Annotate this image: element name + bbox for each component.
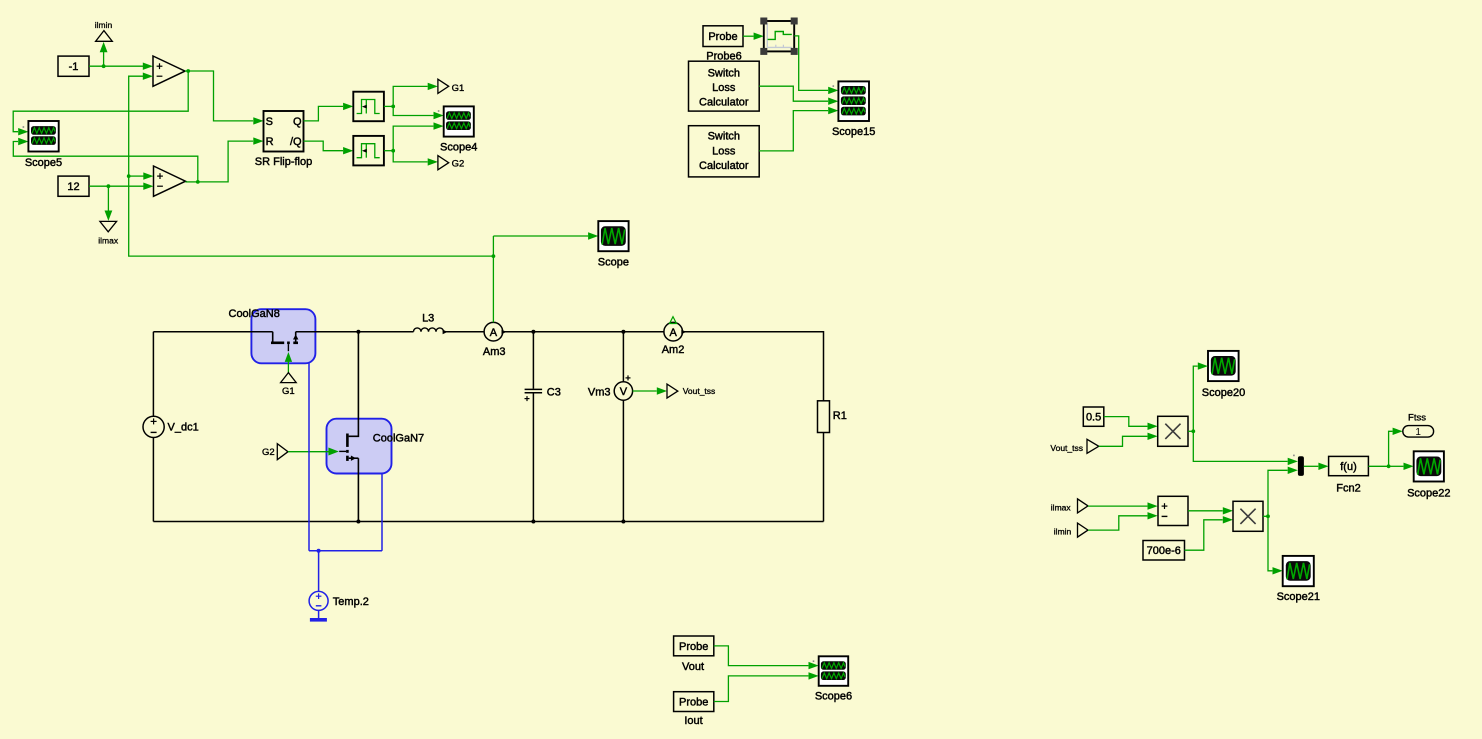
ammeter Am2 (662, 317, 687, 356)
node bottom rail junction (356, 520, 360, 524)
wire mult2 to mux input 2 (1268, 467, 1298, 517)
wire R1 to bottom rail (823, 433, 825, 522)
wire thermal CoolGaN7 (381, 474, 383, 551)
svg-text:Scope: Scope (598, 257, 629, 269)
wire -1 to comparator plus (89, 62, 153, 69)
wire U1 output to Scope5 input 1 (13, 71, 188, 135)
wire delay2 to Scope4 input 2 (393, 122, 444, 150)
svg-text:Scope15: Scope15 (832, 126, 875, 138)
svg-text:C3: C3 (547, 386, 561, 398)
wire Vout_tss to mult1 input 2 (1099, 433, 1158, 447)
svg-text:A: A (670, 327, 678, 339)
scope Scope15 (832, 81, 875, 137)
wire Am3 measurement up (492, 236, 496, 322)
wire sum to mult2 input 1 (1188, 507, 1233, 514)
svg-text:R1: R1 (833, 410, 847, 422)
scope Scope5 (23, 121, 63, 169)
tag ilmin triangle (96, 31, 113, 42)
node C3 top (531, 330, 535, 334)
tag Vout_tss from (1050, 439, 1098, 453)
svg-text:Switch: Switch (708, 67, 740, 79)
svg-text:Scope6: Scope6 (815, 691, 852, 703)
svg-text:Loss: Loss (712, 82, 736, 94)
svg-text:S: S (266, 116, 273, 128)
sum block (1158, 496, 1188, 525)
wire delay2 to G2 tag (393, 151, 438, 166)
thermal ground (310, 610, 327, 621)
svg-text:Vm3: Vm3 (588, 386, 611, 398)
wire Fcn2 to Ftss outport (1389, 428, 1403, 467)
capacitor C3 (525, 332, 561, 522)
wire to Scope (493, 232, 598, 239)
wire top rail left (153, 331, 272, 333)
wire thermal to Temp.2 (318, 551, 320, 592)
turn-on delay 2 (353, 136, 384, 166)
tag G1 under CoolGaN8 (281, 373, 297, 397)
probe Probe6 (703, 26, 743, 63)
wire 700e-6 to mult2 input 2 (1185, 516, 1234, 550)
svg-text:ilmin: ilmin (1054, 526, 1072, 536)
scope Scope22 (1407, 451, 1450, 499)
transistor Q2 in CoolGaN7 (339, 332, 358, 522)
wire mult1 to mux input 1 (1193, 431, 1298, 465)
wire left rail (152, 332, 154, 417)
voltage source V_dc1 (143, 416, 199, 437)
wire U1 output to SR S input (188, 71, 263, 125)
svg-text:G1: G1 (282, 386, 295, 397)
scope Scope6 (813, 656, 852, 702)
wire rail C3 to Vm3 node (533, 331, 623, 333)
node Vm3 bottom (621, 520, 625, 524)
wire Vout to Scope6 input 1 (714, 646, 819, 669)
voltmeter Vm3 (588, 332, 633, 522)
svg-text:L3: L3 (422, 312, 434, 324)
switch loss calculator 1 (689, 61, 760, 111)
switch loss calculator 2 (689, 126, 760, 177)
svg-text:ilmax: ilmax (98, 235, 119, 245)
subsystem CoolGaN7 body (327, 419, 425, 474)
tag G2 (438, 156, 464, 170)
svg-text:700e-6: 700e-6 (1147, 545, 1181, 557)
svg-text:Calculator: Calculator (699, 97, 749, 109)
node thermal junction (317, 549, 321, 553)
constant 700e-6 (1143, 541, 1185, 561)
svg-text:Vout: Vout (682, 661, 704, 673)
wire scope block to Scope15 input 1 (794, 36, 838, 94)
wire mult1 to Scope20 (1193, 362, 1208, 431)
svg-text:Q: Q (293, 116, 302, 128)
inductor L3 (414, 312, 448, 334)
probe Iout (674, 692, 714, 727)
wire Probe6 to scope block (743, 33, 764, 40)
SR flip-flop (255, 111, 312, 168)
svg-text:Scope4: Scope4 (440, 142, 477, 154)
node mult2 output (1263, 514, 1270, 518)
svg-text:R: R (266, 136, 274, 148)
svg-text:CoolGaN8: CoolGaN8 (229, 308, 280, 320)
tag G1 (438, 79, 464, 94)
multiplexer (1293, 455, 1304, 476)
svg-text:Calculator: Calculator (699, 160, 749, 172)
tag ilmax triangle (100, 221, 117, 231)
scope Scope20 (1202, 351, 1245, 399)
scope Scope21 (1277, 556, 1320, 603)
svg-text:Scope20: Scope20 (1202, 387, 1245, 399)
outport Ftss (1403, 413, 1434, 438)
svg-text:Iout: Iout (684, 715, 702, 727)
node top rail junction (356, 330, 360, 334)
svg-text:Probe: Probe (708, 31, 737, 43)
wire inductor to Am3 (444, 331, 485, 333)
wire ilmin to sum input 2 (1088, 512, 1158, 530)
svg-text:A: A (490, 327, 498, 339)
subsystem CoolGaN8 body (229, 308, 316, 363)
tag ilmin from (1054, 523, 1088, 537)
svg-text:Vout_tss: Vout_tss (683, 386, 716, 396)
wire to ilmax tag (105, 186, 113, 221)
svg-text:Scope5: Scope5 (25, 157, 62, 169)
wire left rail lower (152, 438, 154, 522)
wire U2 output to SR R input (198, 137, 264, 181)
constant -1 (58, 56, 89, 76)
wire rail Am2 to R1 (683, 332, 824, 401)
wire 12 to comparator U2 minus (89, 183, 154, 190)
wire thermal CoolGaN8 (308, 363, 310, 551)
svg-text:SR Flip-flop: SR Flip-flop (255, 156, 312, 168)
wire gate G1 into CoolGaN8 (285, 352, 292, 373)
node comparator U2 output (186, 180, 200, 184)
svg-text:V: V (620, 386, 628, 398)
thermal source Temp.2 (309, 591, 369, 610)
wire SR /Q to delay 2 (304, 141, 354, 154)
svg-text:Scope22: Scope22 (1407, 488, 1450, 500)
svg-text:G2: G2 (452, 159, 465, 170)
wire comparator U1 minus input from feedback (129, 73, 494, 257)
scope Scope (598, 221, 629, 268)
wire thermal bottom (309, 550, 382, 552)
svg-text:Am3: Am3 (483, 346, 506, 358)
node Fcn2 output (1368, 464, 1390, 468)
svg-text:Am2: Am2 (662, 344, 685, 356)
wire delay1 to Scope4 input 1 (393, 106, 444, 119)
resistor R1 (818, 401, 847, 433)
wire SR Q to delay 1 (304, 103, 354, 121)
wire Am3 to C3 node (503, 331, 534, 333)
svg-text:f(u): f(u) (1340, 461, 1357, 473)
svg-text:0.5: 0.5 (1086, 412, 1101, 424)
node delay 2 output (384, 149, 395, 153)
ammeter Am3 (483, 322, 507, 358)
wire Iout to Scope6 input 2 (714, 672, 819, 701)
wire mux to Fcn2 (1304, 463, 1329, 470)
comparator U1 (153, 56, 185, 86)
wire Fcn2 to Scope22 (1389, 463, 1414, 470)
wire G2 to CoolGaN7 gate (288, 448, 339, 456)
comparator U2 (154, 166, 186, 196)
tag G2 (262, 444, 288, 460)
wire delay1 to G1 tag (393, 83, 438, 107)
wire rail Vm3 to Am2 (623, 331, 664, 333)
turn-on delay 1 (353, 92, 384, 122)
svg-text:G2: G2 (262, 447, 275, 458)
wire to ilmin (100, 42, 108, 66)
svg-text:CoolGaN7: CoolGaN7 (373, 432, 424, 444)
svg-text:1: 1 (1415, 427, 1421, 438)
svg-text:ilmax: ilmax (1051, 503, 1072, 513)
function block Fcn2 (1329, 456, 1369, 494)
svg-text:Switch: Switch (708, 131, 740, 143)
wire mult2 to Scope21 (1268, 516, 1283, 574)
wire SLC2 to Scope15 input 3 (759, 107, 838, 151)
tag Vout_tss (667, 384, 715, 398)
node feedback to comparator U2 plus (127, 172, 154, 179)
wire U2 output to Scope5 input 2 (13, 138, 198, 182)
svg-text:Loss: Loss (712, 145, 736, 157)
constant 12 (58, 176, 89, 196)
svg-text:/Q: /Q (290, 136, 302, 148)
svg-text:12: 12 (67, 181, 79, 193)
transistor Q1 in CoolGaN8 (271, 332, 358, 352)
svg-text:Fcn2: Fcn2 (1336, 482, 1360, 494)
svg-text:V_dc1: V_dc1 (168, 422, 199, 434)
wire 0.5 to mult1 input 1 (1104, 417, 1158, 430)
svg-text:Vout_tss: Vout_tss (1050, 443, 1083, 453)
svg-text:Scope21: Scope21 (1277, 591, 1320, 603)
multiplier 1 (1158, 416, 1188, 446)
selected scope block (with selection handles) (760, 18, 797, 55)
node C3 bottom (531, 520, 535, 524)
node Vm3 top (621, 330, 625, 334)
svg-text:-1: -1 (69, 61, 79, 73)
node mult1 output (1188, 429, 1195, 433)
multiplier 2 (1233, 501, 1263, 531)
wire SLC1 to Scope15 input 2 (759, 86, 838, 105)
probe Vout (674, 636, 714, 673)
svg-text:Temp.2: Temp.2 (333, 596, 369, 608)
tag ilmax from (1051, 499, 1088, 513)
svg-text:Probe: Probe (679, 696, 708, 708)
wire ilmax to sum input 1 (1088, 502, 1158, 509)
wire rail to inductor (358, 331, 413, 333)
svg-text:Ftss: Ftss (1408, 413, 1426, 424)
svg-text:ilmin: ilmin (95, 20, 113, 30)
node delay 1 output (384, 105, 395, 109)
constant 0.5 (1083, 407, 1104, 426)
svg-text:Probe: Probe (679, 641, 708, 653)
wire bottom rail (153, 521, 823, 523)
node comparator U1 output (185, 69, 190, 73)
scope Scope4 (438, 106, 478, 153)
svg-text:G1: G1 (452, 83, 465, 94)
wire Vm3 to Vout_tss tag (633, 387, 667, 394)
